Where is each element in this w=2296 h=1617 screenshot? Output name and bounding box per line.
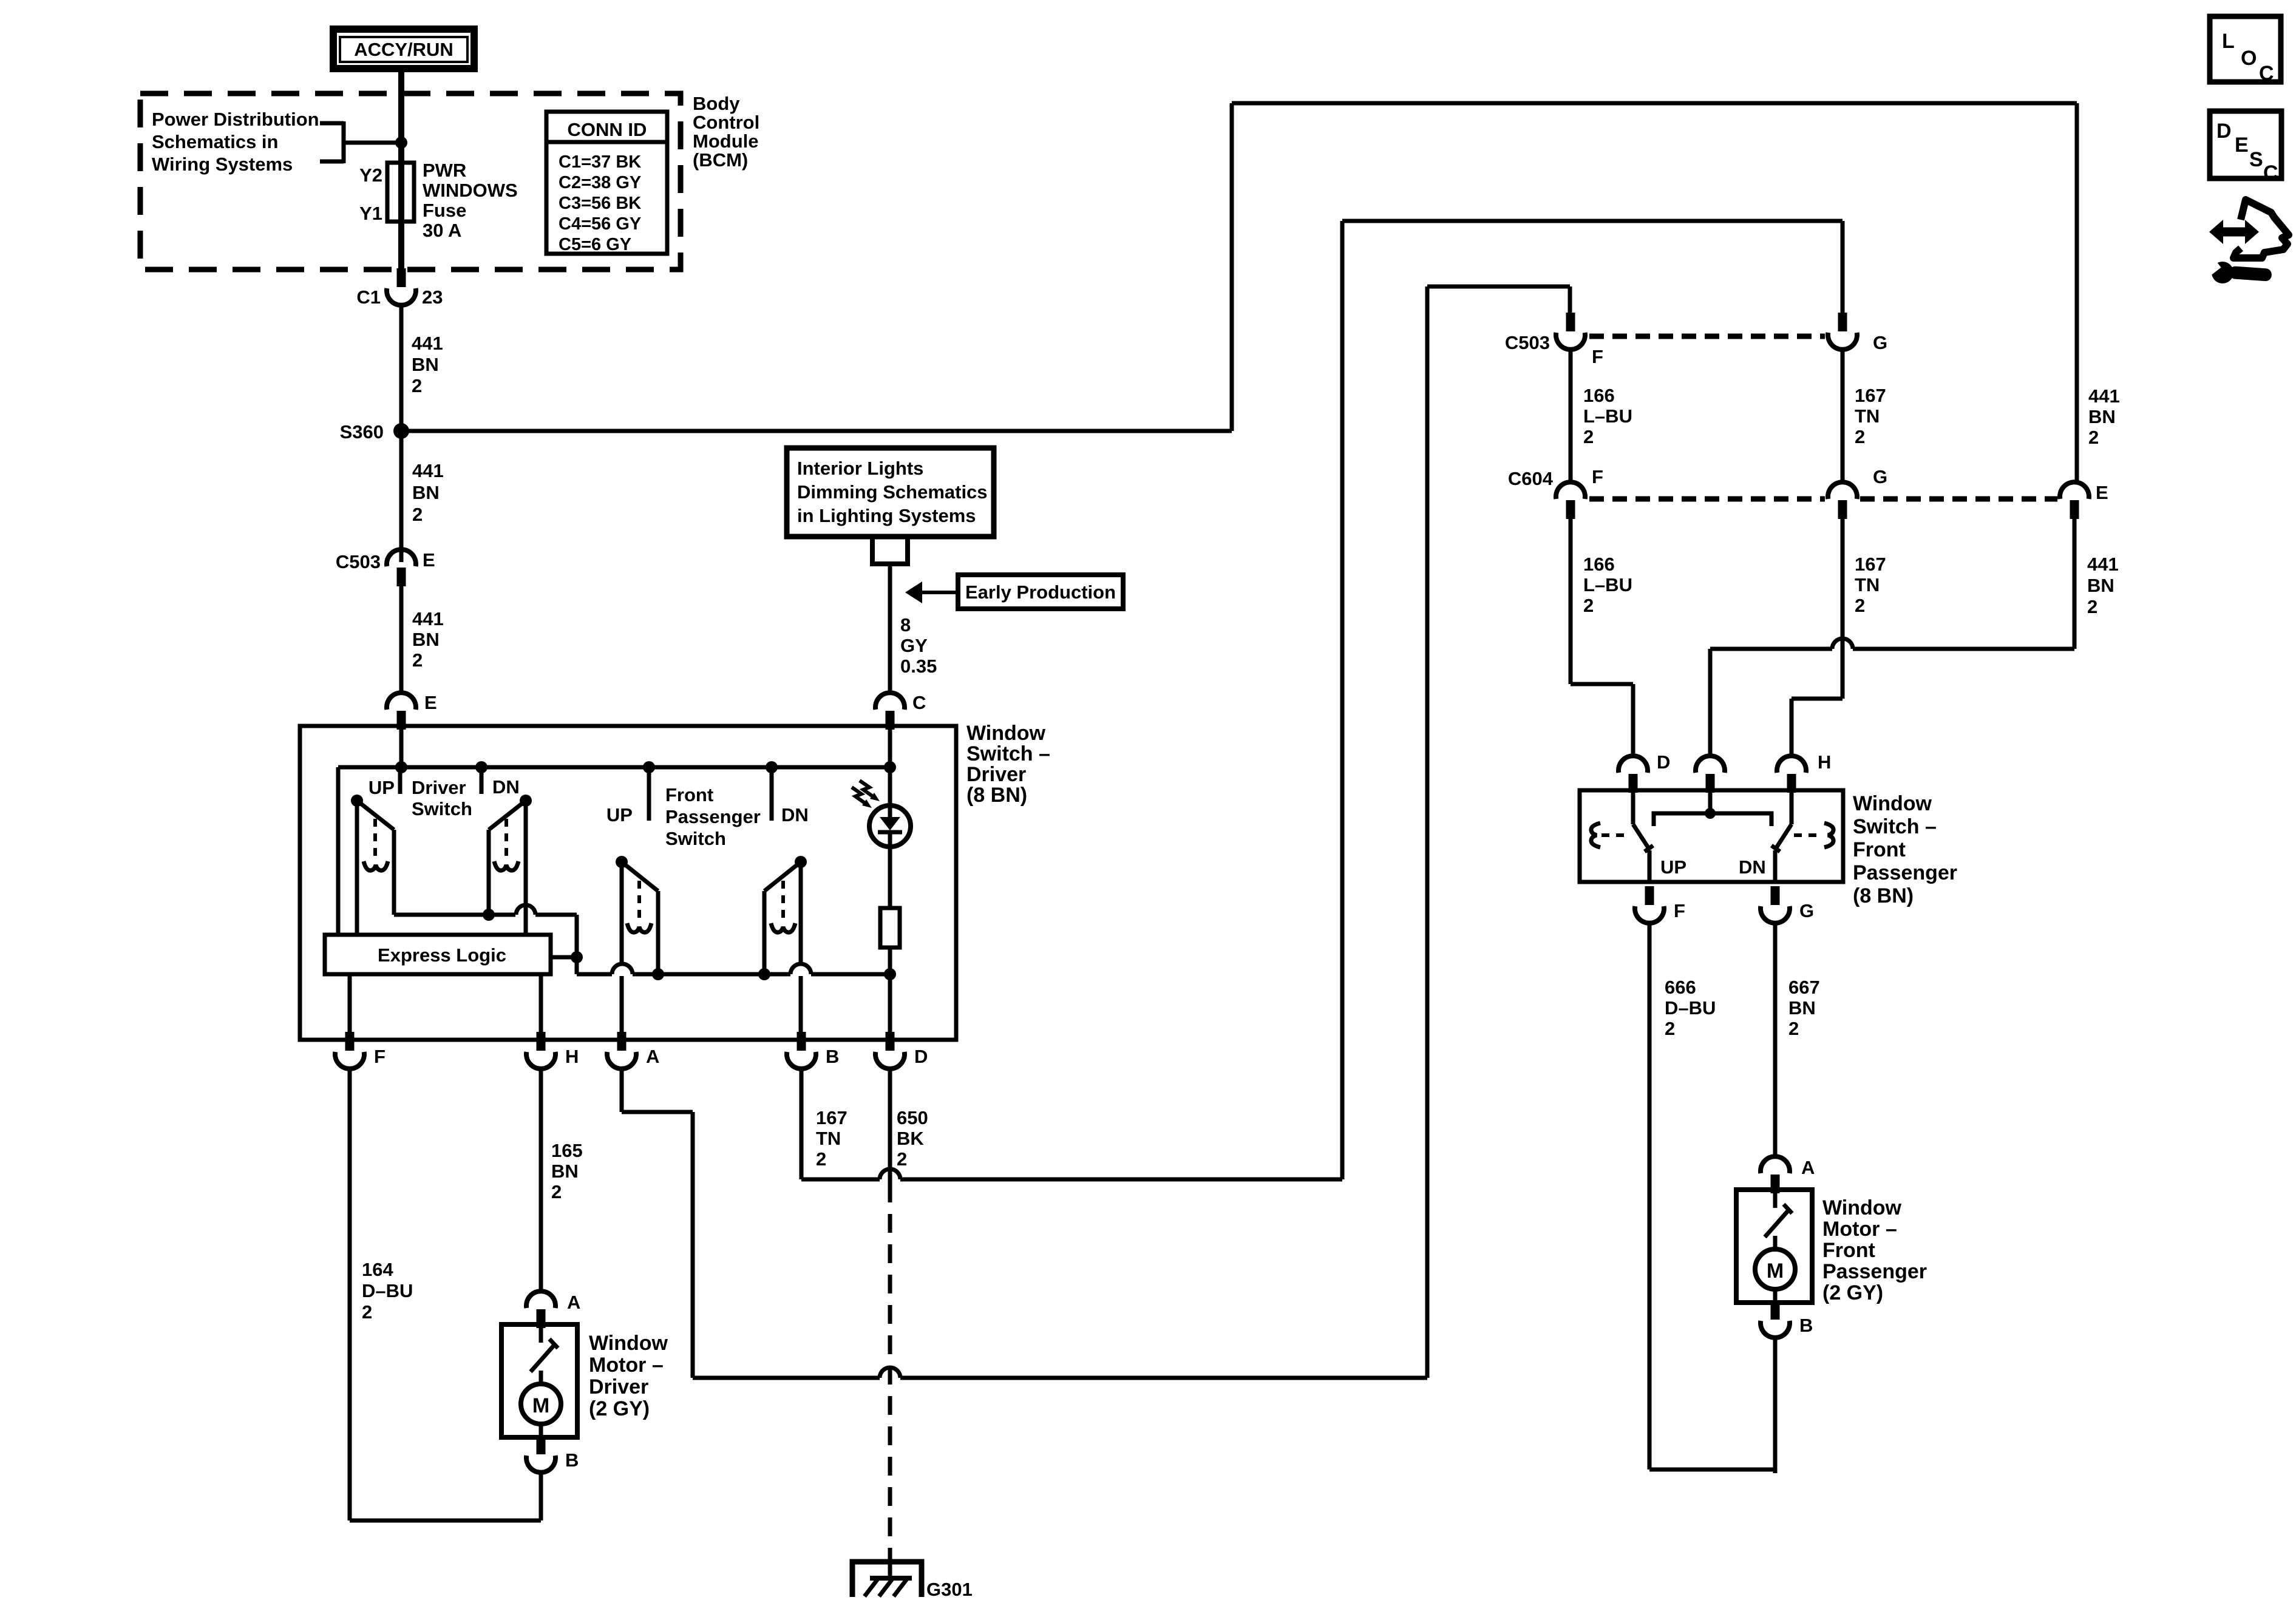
- svg-text:2: 2: [412, 375, 422, 396]
- svg-text:Front: Front: [665, 784, 713, 805]
- wire 167 C604G to passenger switch H: [1841, 517, 1845, 699]
- svg-text:D–BU: D–BU: [362, 1280, 413, 1301]
- connector A window motor driver: [537, 1309, 546, 1328]
- svg-text:Window: Window: [589, 1332, 668, 1355]
- svg-text:Driver: Driver: [412, 777, 466, 798]
- svg-text:2: 2: [1855, 426, 1865, 447]
- svg-text:C: C: [2259, 62, 2274, 85]
- connector D passenger switch: [1629, 774, 1638, 793]
- arrow early production: [920, 591, 958, 594]
- wire 666 D-BU F to motor B loop: [1648, 923, 1652, 1470]
- svg-text:O: O: [2241, 47, 2257, 70]
- box Window Switch Front Passenger: [1580, 790, 1843, 882]
- svg-text:Passenger: Passenger: [1853, 861, 1957, 884]
- wire motor B down: [1773, 1337, 1778, 1470]
- wire contact stubs: [398, 767, 402, 794]
- connector H passenger switch: [1787, 774, 1796, 793]
- svg-text:C: C: [2263, 161, 2278, 185]
- svg-text:F: F: [1592, 466, 1603, 487]
- svg-text:Motor –: Motor –: [1822, 1218, 1897, 1241]
- power symbol ACCY/RUN: [333, 29, 474, 69]
- svg-text:Y2: Y2: [359, 164, 382, 186]
- svg-text:(BCM): (BCM): [693, 149, 748, 171]
- svg-text:UP: UP: [606, 804, 633, 825]
- svg-text:S360: S360: [340, 421, 384, 442]
- svg-text:167: 167: [1855, 385, 1886, 406]
- connector center passenger switch: [1706, 774, 1715, 793]
- connector H driver switch: [539, 974, 543, 1040]
- svg-text:Switch –: Switch –: [966, 742, 1050, 765]
- svg-text:Wiring Systems: Wiring Systems: [152, 154, 293, 175]
- wire 166 L-BU C503F to C604F: [1569, 349, 1573, 482]
- svg-text:C1=37 BK: C1=37 BK: [559, 152, 641, 172]
- svg-text:D: D: [2216, 120, 2232, 143]
- svg-text:166: 166: [1583, 385, 1615, 406]
- svg-text:L–BU: L–BU: [1583, 405, 1632, 427]
- svg-text:D: D: [1657, 751, 1670, 773]
- svg-text:Early Production: Early Production: [965, 581, 1116, 603]
- svg-text:Dimming Schematics: Dimming Schematics: [797, 481, 988, 503]
- svg-text:Passenger: Passenger: [1822, 1260, 1927, 1283]
- svg-text:441: 441: [412, 333, 443, 354]
- wire driver switch common: [394, 913, 515, 917]
- svg-text:E: E: [2235, 134, 2249, 157]
- svg-text:Window: Window: [1822, 1196, 1902, 1219]
- svg-text:G301: G301: [926, 1579, 973, 1600]
- svg-text:BN: BN: [1788, 997, 1816, 1019]
- connector C604 pin F: [1566, 500, 1575, 519]
- svg-text:Passenger: Passenger: [665, 806, 761, 827]
- svg-text:BN: BN: [412, 482, 440, 503]
- svg-text:B: B: [1799, 1315, 1813, 1336]
- fuse PWR WINDOWS 30A: [387, 163, 414, 222]
- svg-text:Front: Front: [1822, 1239, 1875, 1262]
- svg-text:in Lighting Systems: in Lighting Systems: [797, 505, 976, 526]
- icon service arrow and wrench: [2207, 200, 2289, 283]
- wire center feed with bracket: [1708, 790, 1713, 813]
- svg-text:PWR: PWR: [423, 160, 466, 181]
- svg-text:S: S: [2249, 148, 2263, 171]
- svg-text:BK: BK: [897, 1128, 924, 1149]
- wire A to passenger circuit: [620, 1068, 624, 1112]
- wire 8 GY to switch: [888, 564, 892, 693]
- connector E BCM harness: [2070, 500, 2079, 519]
- svg-text:441: 441: [2087, 554, 2119, 575]
- svg-text:441: 441: [412, 460, 444, 481]
- svg-text:CONN ID: CONN ID: [568, 119, 647, 140]
- svg-text:D–BU: D–BU: [1665, 997, 1716, 1019]
- svg-text:441: 441: [412, 608, 444, 629]
- connector C1 pin 23: [397, 268, 406, 287]
- svg-text:Switch –: Switch –: [1853, 815, 1937, 838]
- svg-text:2: 2: [1583, 426, 1594, 447]
- callout Early Production: [958, 575, 1123, 609]
- svg-text:BN: BN: [412, 629, 440, 650]
- dashed connector line C604: [1589, 497, 1825, 502]
- svg-text:Motor –: Motor –: [589, 1354, 664, 1377]
- connector B window motor front passenger: [1771, 1301, 1780, 1320]
- connector A driver switch: [617, 1032, 627, 1051]
- svg-text:E: E: [2096, 482, 2108, 503]
- svg-text:D: D: [914, 1046, 928, 1067]
- svg-text:23: 23: [422, 286, 443, 308]
- switch driver UP: [351, 795, 394, 935]
- svg-text:2: 2: [897, 1148, 907, 1170]
- connector A window motor front passenger: [1771, 1175, 1780, 1193]
- wire ACCY/RUN to fuse: [398, 72, 404, 269]
- icon DESC: [2210, 111, 2281, 185]
- svg-text:2: 2: [1855, 595, 1865, 616]
- svg-text:E: E: [424, 692, 437, 713]
- connector B window motor driver: [537, 1436, 546, 1454]
- svg-text:G: G: [1873, 332, 1887, 353]
- svg-text:DN: DN: [781, 804, 809, 825]
- svg-text:F: F: [1592, 346, 1603, 367]
- svg-text:WINDOWS: WINDOWS: [423, 180, 518, 201]
- svg-text:2: 2: [362, 1301, 372, 1323]
- svg-text:Window: Window: [1853, 792, 1932, 815]
- connector G passenger switch: [1771, 886, 1780, 905]
- svg-text:B: B: [826, 1046, 839, 1067]
- svg-text:Module: Module: [693, 131, 759, 152]
- svg-text:A: A: [646, 1046, 659, 1067]
- connector C503 pin F: [1566, 313, 1575, 331]
- wire S360 down: [399, 431, 404, 562]
- svg-text:TN: TN: [816, 1128, 841, 1149]
- svg-text:Window: Window: [966, 722, 1046, 745]
- svg-text:L: L: [2222, 30, 2235, 53]
- svg-text:F: F: [374, 1046, 385, 1067]
- resistor: [880, 908, 900, 947]
- CONN ID table: [546, 112, 667, 254]
- connector E window switch driver: [397, 711, 406, 730]
- svg-text:2: 2: [1665, 1018, 1675, 1039]
- wire 164 D-BU F to motor loop: [348, 1068, 352, 1520]
- svg-text:A: A: [567, 1292, 580, 1313]
- icon LOC: [2210, 16, 2281, 85]
- svg-text:TN: TN: [1855, 405, 1880, 427]
- wire to D pin: [888, 974, 892, 1040]
- wire 167 TN C503G to C604G: [1841, 349, 1845, 482]
- box Express Logic: [325, 935, 551, 974]
- svg-text:C604: C604: [1508, 468, 1554, 489]
- wire feed rail inside switch: [338, 765, 890, 770]
- LED indicator with resistor: [852, 767, 911, 908]
- svg-text:C5=6 GY: C5=6 GY: [559, 235, 631, 254]
- svg-text:A: A: [1801, 1157, 1815, 1178]
- svg-text:C2=38 GY: C2=38 GY: [559, 173, 641, 192]
- wire passenger common rail: [577, 972, 612, 977]
- svg-text:BN: BN: [2087, 575, 2114, 596]
- connector C503 pin E: [397, 568, 406, 586]
- svg-text:BN: BN: [2088, 406, 2116, 427]
- svg-text:H: H: [565, 1046, 579, 1067]
- svg-text:(2 GY): (2 GY): [1822, 1281, 1883, 1304]
- svg-text:164: 164: [362, 1259, 393, 1280]
- svg-text:BN: BN: [551, 1161, 579, 1182]
- motor M window motor front passenger: [1736, 1190, 1812, 1303]
- switch passenger-window DN (in driver console): [764, 856, 807, 1040]
- svg-text:8: 8: [900, 614, 911, 636]
- svg-text:G: G: [1799, 900, 1814, 921]
- svg-text:M: M: [1767, 1259, 1784, 1283]
- svg-text:C3=56 BK: C3=56 BK: [559, 194, 641, 213]
- svg-text:(2 GY): (2 GY): [589, 1397, 650, 1420]
- svg-text:GY: GY: [900, 635, 928, 656]
- svg-text:2: 2: [412, 504, 423, 525]
- switch passenger DN: [1771, 790, 1833, 882]
- svg-text:H: H: [1818, 751, 1831, 773]
- svg-text:2: 2: [412, 649, 423, 671]
- node power junction: [395, 137, 407, 149]
- svg-text:C503: C503: [1505, 332, 1550, 353]
- connector C503 pin G: [1838, 313, 1847, 331]
- node splice S360: [393, 423, 409, 439]
- svg-text:30 A: 30 A: [423, 220, 461, 241]
- ground G301: [852, 1551, 922, 1597]
- svg-text:667: 667: [1788, 977, 1820, 998]
- svg-text:C1: C1: [356, 286, 381, 308]
- connector C604 pin G: [1838, 500, 1847, 519]
- wire 441 BN E to passenger switch center: [2073, 517, 2077, 649]
- svg-text:165: 165: [551, 1140, 583, 1161]
- svg-text:167: 167: [1855, 554, 1886, 575]
- connector F passenger switch: [1645, 886, 1654, 905]
- wire C503 E down: [399, 583, 404, 693]
- connector F driver switch: [348, 974, 352, 1040]
- svg-text:(8 BN): (8 BN): [966, 784, 1027, 807]
- motor M window motor driver: [501, 1324, 577, 1437]
- svg-text:650: 650: [897, 1107, 928, 1128]
- connector D driver switch: [886, 1032, 895, 1051]
- BCM dashed box: [140, 93, 681, 269]
- wire 441 BN C1 to S360: [399, 305, 404, 431]
- svg-text:2: 2: [2088, 427, 2099, 448]
- svg-text:Schematics in: Schematics in: [152, 131, 278, 152]
- svg-text:G: G: [1873, 466, 1887, 487]
- svg-text:C4=56 GY: C4=56 GY: [559, 214, 641, 234]
- svg-text:166: 166: [1583, 554, 1615, 575]
- svg-text:Front: Front: [1853, 838, 1906, 861]
- svg-text:2: 2: [1788, 1018, 1799, 1039]
- svg-text:167: 167: [816, 1107, 847, 1128]
- connector B driver switch: [797, 1032, 806, 1051]
- svg-text:2: 2: [1583, 595, 1594, 616]
- svg-text:441: 441: [2088, 385, 2120, 407]
- svg-text:C503: C503: [336, 551, 381, 572]
- wire 165 BN H to motor A: [539, 1068, 543, 1290]
- svg-text:UP: UP: [369, 777, 395, 798]
- wire bracket below interior lights box: [872, 537, 908, 564]
- wire 667 BN G to motor A: [1773, 923, 1778, 1156]
- svg-text:DN: DN: [1739, 856, 1766, 878]
- wire 650 BK D to ground: [888, 1068, 892, 1184]
- svg-text:TN: TN: [1855, 574, 1880, 595]
- svg-text:Driver: Driver: [589, 1375, 648, 1398]
- svg-text:Switch: Switch: [412, 798, 472, 819]
- wire resistor to rail: [888, 947, 892, 974]
- wire into switch box: [399, 727, 404, 767]
- svg-text:ACCY/RUN: ACCY/RUN: [354, 39, 453, 60]
- svg-text:Control: Control: [693, 112, 759, 133]
- connector C window switch driver: [886, 711, 895, 730]
- svg-text:BN: BN: [412, 354, 439, 375]
- switch driver DN: [489, 795, 532, 935]
- svg-text:Fuse: Fuse: [423, 200, 466, 221]
- svg-text:(8 BN): (8 BN): [1853, 884, 1914, 907]
- svg-text:M: M: [532, 1394, 549, 1417]
- wire bracket from power distribution note: [320, 121, 401, 163]
- wire 167 TN B to C503 G: [800, 1068, 804, 1179]
- switch passenger UP: [1591, 790, 1653, 882]
- svg-text:B: B: [565, 1449, 579, 1471]
- callout Interior Lights Dimming Schematics: [787, 448, 994, 537]
- svg-text:666: 666: [1665, 977, 1696, 998]
- svg-text:Power Distribution: Power Distribution: [152, 109, 319, 130]
- dashed connector line C503: [1589, 334, 1825, 339]
- svg-text:F: F: [1674, 900, 1685, 921]
- svg-text:C: C: [912, 692, 926, 713]
- box Window Switch Driver: [300, 726, 956, 1040]
- svg-text:Interior Lights: Interior Lights: [797, 458, 923, 479]
- switch passenger-window UP (in driver console): [616, 856, 658, 1040]
- svg-text:UP: UP: [1660, 856, 1686, 878]
- svg-text:Body: Body: [693, 93, 740, 114]
- svg-text:L–BU: L–BU: [1583, 574, 1632, 595]
- svg-text:0.35: 0.35: [900, 656, 937, 677]
- wire 166 C604F to passenger switch D: [1569, 517, 1573, 684]
- svg-text:2: 2: [816, 1148, 826, 1170]
- svg-text:Driver: Driver: [966, 763, 1026, 786]
- svg-text:Switch: Switch: [665, 828, 726, 849]
- node rail junctions: [395, 761, 407, 773]
- wire S360 branch to BCM right side: [401, 429, 1232, 433]
- svg-text:Express Logic: Express Logic: [378, 944, 506, 966]
- svg-text:Y1: Y1: [359, 203, 382, 224]
- svg-text:2: 2: [551, 1181, 562, 1202]
- svg-text:DN: DN: [492, 776, 520, 798]
- svg-text:E: E: [423, 549, 435, 571]
- svg-text:2: 2: [2087, 596, 2097, 617]
